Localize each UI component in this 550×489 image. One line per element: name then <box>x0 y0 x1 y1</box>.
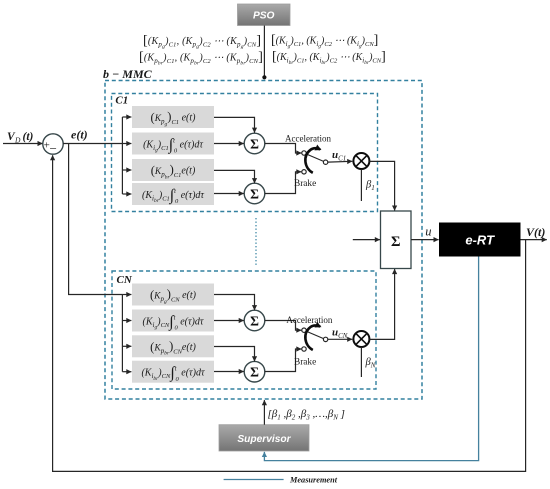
wire e(t) to CN <box>69 144 123 295</box>
svg-text:Brake: Brake <box>294 179 316 189</box>
e-RT block <box>439 223 521 257</box>
svg-text:(t): (t) <box>23 131 34 143</box>
wire CN Ki-brake to summer <box>214 371 244 373</box>
svg-text:[(Kibr)C1, (Kibr)C2 ⋯ (Kibr)CN: [(Kibr)C1, (Kibr)C2 ⋯ (Kibr)CN] <box>272 50 386 67</box>
svg-text:Supervisor: Supervisor <box>237 434 291 445</box>
output V(t) <box>521 225 547 239</box>
wire Kp-brake to summer <box>214 170 255 183</box>
switch CN <box>302 325 328 351</box>
wire supervisor to b-MMC <box>263 400 265 425</box>
summer acceleration CN <box>244 310 265 331</box>
C1 gain block Kp-gas <box>132 106 214 128</box>
svg-text:CN: CN <box>117 274 133 286</box>
svg-text:Brake: Brake <box>294 358 316 368</box>
wire feedback measurement (black) <box>53 155 526 471</box>
C1 gain block Ki-brake <box>132 183 214 205</box>
summing junction <box>43 134 63 156</box>
wire CN Kp-gas to summer <box>214 295 255 311</box>
svg-text:Acceleration: Acceleration <box>286 315 332 325</box>
summer acceleration C1 <box>244 133 265 154</box>
legend measurement <box>224 476 338 485</box>
dotted continuation line <box>255 218 257 267</box>
svg-text:Σ: Σ <box>250 365 259 380</box>
svg-text:−: − <box>50 141 57 156</box>
CN gain block Kp-gas <box>132 284 214 306</box>
svg-text:Σ: Σ <box>250 187 259 202</box>
svg-text:b − MMC: b − MMC <box>103 67 153 81</box>
wire Kp-gas to summer <box>214 117 255 132</box>
input VD(t) <box>3 131 43 145</box>
wire e(t) branch into C1 blocks <box>122 117 131 194</box>
wire e-RT to supervisor (blue measurement) <box>264 257 478 461</box>
wire e(t) main <box>63 143 122 145</box>
svg-text:C1: C1 <box>115 95 128 107</box>
wire CN Ki-gas to summer <box>214 320 244 322</box>
wire e(t) branch into CN blocks <box>122 295 131 372</box>
svg-text:uCN: uCN <box>332 327 348 341</box>
svg-text:e-RT: e-RT <box>465 233 495 248</box>
summer brake CN <box>244 361 265 382</box>
svg-text:Measurement: Measurement <box>289 476 338 485</box>
svg-text:uC1: uC1 <box>332 149 346 163</box>
PSO block <box>238 4 291 26</box>
wire Ki-brake to summer <box>214 193 244 195</box>
svg-text:βN: βN <box>365 357 376 369</box>
wire switch to multiplier uCN <box>328 338 352 340</box>
multiplier beta1 <box>353 153 369 169</box>
CN gain block Ki-brake <box>132 361 214 383</box>
wire CN summer to acceleration contact <box>265 321 302 331</box>
Supervisor block <box>219 425 309 451</box>
svg-text:e(t): e(t) <box>71 128 88 142</box>
CN dashed box <box>112 271 376 389</box>
wire PSO to b-MMC <box>262 26 266 80</box>
svg-text:β1: β1 <box>365 179 375 191</box>
C1 gain block Kp-brake <box>132 159 214 181</box>
wire summer to acceleration contact <box>265 144 302 154</box>
wire summer to brake contact <box>265 172 302 194</box>
C1 dashed box <box>112 94 378 212</box>
summer brake C1 <box>244 183 265 204</box>
multiplier betaN <box>353 331 369 347</box>
wire CN Kp-brake to summer <box>214 347 255 362</box>
C1 gain block Ki-gas <box>132 133 214 155</box>
wire betaN input <box>360 347 362 377</box>
svg-text:Σ: Σ <box>250 137 259 152</box>
svg-text:V(t): V(t) <box>526 225 545 239</box>
CN gain block Ki-gas <box>132 310 214 332</box>
svg-text:[(Kig)C1, (Kig)C2 ⋯ (Kig)CN]: [(Kig)C1, (Kig)C2 ⋯ (Kig)CN] <box>271 33 378 50</box>
wire dots-input into Sigma <box>353 239 380 241</box>
svg-text:PSO: PSO <box>253 11 275 22</box>
switch C1 <box>302 148 328 174</box>
svg-text:Σ: Σ <box>391 234 400 250</box>
svg-text:Σ: Σ <box>250 314 259 329</box>
svg-text:[(Kpg)C1, (Kpg)C2 ⋯ (Kpg)CN]: [(Kpg)C1, (Kpg)C2 ⋯ (Kpg)CN] <box>143 34 261 51</box>
svg-text:[(Kpbr)C1, (Kpbr)C2 ⋯ (Kpbr)CN: [(Kpbr)C1, (Kpbr)C2 ⋯ (Kpbr)CN] <box>139 50 263 67</box>
Sigma summation block <box>381 211 412 269</box>
wire Sigma to e-RT with u label <box>411 225 439 240</box>
svg-text:u: u <box>425 225 431 239</box>
wire Ki-gas to summer <box>214 143 244 145</box>
CN gain block Kp-brake <box>132 335 214 357</box>
wire CN summer to brake contact <box>265 349 302 372</box>
svg-text:[β1 ,β2 ,β3 ,…,βN ]: [β1 ,β2 ,β3 ,…,βN ] <box>268 408 345 421</box>
svg-text:Acceleration: Acceleration <box>285 133 331 143</box>
wire beta1 input <box>360 169 362 201</box>
wire multiplier C1 to Sigma <box>369 161 394 210</box>
b-MMC dashed box <box>105 81 422 400</box>
wire switch to multiplier uC1 <box>328 160 352 163</box>
wire multiplier CN to Sigma <box>369 269 394 339</box>
